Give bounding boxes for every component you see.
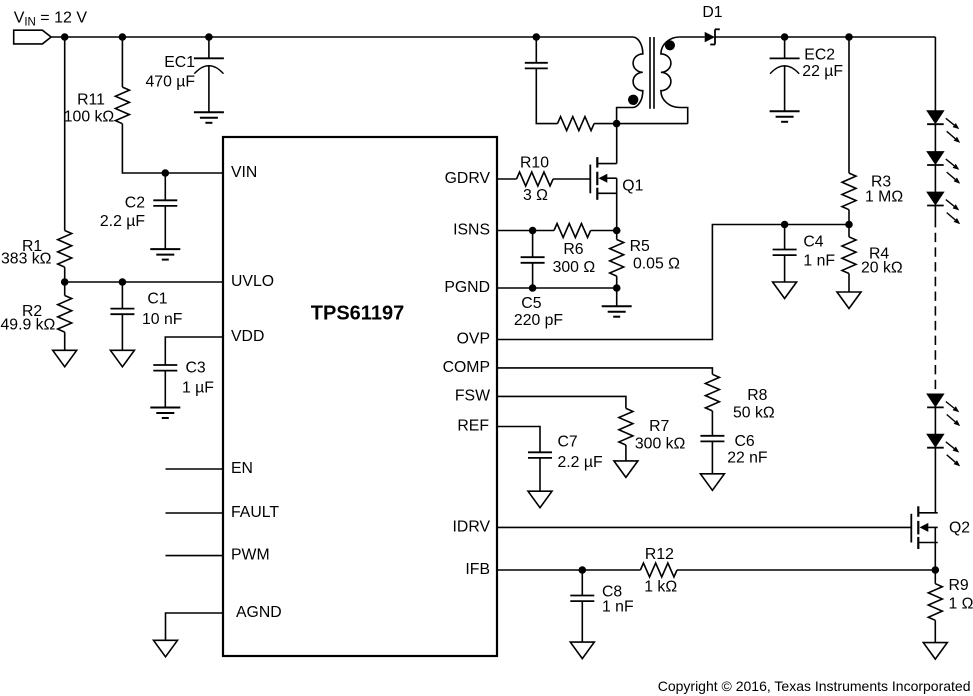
svg-text:3 Ω: 3 Ω bbox=[523, 187, 548, 204]
wire C2 top bbox=[164, 173, 166, 200]
svg-text:C4: C4 bbox=[803, 234, 823, 251]
capacitor snubber bbox=[525, 63, 548, 69]
svg-text:R8: R8 bbox=[747, 387, 767, 404]
transformer T1 core bbox=[650, 37, 654, 109]
wire AGND bbox=[166, 613, 224, 640]
node UVLO / C1 bbox=[119, 278, 127, 286]
svg-text:EC2: EC2 bbox=[804, 47, 835, 64]
node output rail / EC2 bbox=[781, 33, 789, 41]
wire R3 bottom bbox=[848, 210, 850, 225]
capacitor C6 22 nF bbox=[700, 433, 768, 467]
svg-text:R10: R10 bbox=[520, 155, 549, 172]
node input rail / R11 bbox=[119, 33, 127, 41]
wire R12 to Q2 source bbox=[677, 569, 935, 571]
svg-text:1 MΩ: 1 MΩ bbox=[865, 189, 903, 206]
svg-text:220 pF: 220 pF bbox=[514, 312, 564, 329]
pin PGND bbox=[444, 279, 490, 296]
LED D2 bbox=[927, 111, 960, 143]
wire R5 top bbox=[616, 231, 618, 240]
svg-text:EN: EN bbox=[231, 460, 253, 477]
wire LED string continuation (dashed) bbox=[934, 205, 936, 389]
ground EC2 bbox=[770, 111, 800, 122]
svg-text:FSW: FSW bbox=[455, 387, 490, 404]
wire snubber resistor to switch node bbox=[594, 123, 617, 125]
svg-text:470 µF: 470 µF bbox=[146, 73, 196, 90]
svg-text:R9: R9 bbox=[949, 577, 969, 594]
svg-text:C3: C3 bbox=[186, 359, 206, 376]
wire PGND to ground bbox=[616, 288, 618, 306]
svg-text:AGND: AGND bbox=[236, 604, 282, 621]
svg-text:383 kΩ: 383 kΩ bbox=[1, 251, 52, 268]
svg-text:Copyright © 2016, Texas Instru: Copyright © 2016, Texas Instruments Inco… bbox=[658, 678, 971, 694]
wire C5 bottom bbox=[532, 263, 534, 288]
svg-text:R12: R12 bbox=[645, 546, 674, 563]
wire snubber cap bottom bbox=[536, 68, 557, 124]
node VIN / C2 bbox=[162, 169, 170, 177]
node input rail / EC1 bbox=[205, 33, 213, 41]
svg-text:10 nF: 10 nF bbox=[142, 311, 183, 328]
svg-text:EC1: EC1 bbox=[164, 54, 195, 71]
label copyright bbox=[658, 678, 971, 694]
svg-text:100 kΩ: 100 kΩ bbox=[64, 108, 115, 125]
capacitor EC1 470 uF bbox=[146, 54, 224, 91]
pin IDRV bbox=[453, 518, 491, 535]
svg-text:C2: C2 bbox=[125, 194, 145, 211]
wire PGND bbox=[497, 287, 617, 289]
wire Q2 source bbox=[934, 527, 936, 570]
pin PWM bbox=[231, 547, 270, 564]
ground C7 bbox=[528, 491, 552, 508]
svg-text:20 kΩ: 20 kΩ bbox=[861, 260, 903, 277]
wire C2 bottom bbox=[164, 206, 166, 249]
wire C8 top bbox=[581, 570, 583, 596]
svg-text:UVLO: UVLO bbox=[231, 273, 274, 290]
resistor R12 1 kOhm bbox=[640, 546, 677, 595]
LED D4 bbox=[927, 192, 960, 224]
wire C1 bottom bbox=[121, 314, 123, 350]
svg-text:R7: R7 bbox=[649, 418, 669, 435]
polarity dot T1 primary bbox=[628, 95, 638, 105]
ground PGND bbox=[602, 306, 632, 317]
wire LED D6 to Q2 drain bbox=[934, 448, 936, 513]
node OVP / C4 bbox=[781, 221, 789, 229]
node output rail / R3 bbox=[845, 33, 853, 41]
ground EC1 bbox=[194, 112, 224, 123]
ground C8 bbox=[570, 642, 594, 659]
svg-text:VDD: VDD bbox=[231, 328, 264, 345]
resistor R9 1 Ohm bbox=[928, 577, 973, 620]
wire R4 bottom bbox=[848, 274, 850, 293]
svg-text:1 nF: 1 nF bbox=[803, 253, 835, 270]
resistor R1 383 kOhm bbox=[1, 231, 72, 268]
wire C5 top bbox=[532, 231, 534, 258]
node R3/R4/OVP bbox=[845, 221, 853, 229]
wire IFB bbox=[497, 569, 640, 571]
wire R11 top bbox=[121, 37, 123, 87]
svg-text:49.9 kΩ: 49.9 kΩ bbox=[1, 317, 56, 334]
pin OVP bbox=[457, 331, 490, 348]
resistor R6 300 Ohm bbox=[553, 224, 596, 276]
svg-text:IDRV: IDRV bbox=[453, 518, 491, 535]
pin VIN bbox=[231, 164, 257, 181]
wire C1 top bbox=[121, 282, 123, 309]
wire R2 top bbox=[64, 282, 66, 296]
svg-text:VIN: VIN bbox=[231, 164, 257, 181]
node ISNS / C5 bbox=[529, 227, 537, 235]
wire R2 bottom bbox=[64, 332, 66, 350]
wire R9 bottom bbox=[934, 620, 936, 642]
wire LED D2 to D3 bbox=[934, 124, 936, 152]
wire OVP bbox=[497, 225, 849, 340]
capacitor C2 2.2 uF bbox=[100, 194, 177, 229]
wire IDRV bbox=[497, 526, 911, 528]
wire C3 bottom bbox=[164, 371, 166, 408]
svg-text:PGND: PGND bbox=[444, 279, 490, 296]
svg-text:50 kΩ: 50 kΩ bbox=[733, 405, 775, 422]
svg-text:C5: C5 bbox=[521, 295, 541, 312]
wire R1 top bbox=[64, 37, 66, 231]
wire VDD pin bbox=[165, 337, 223, 365]
svg-text:D1: D1 bbox=[702, 4, 722, 21]
node R1/R2/UVLO bbox=[61, 278, 69, 286]
svg-text:C6: C6 bbox=[735, 433, 755, 450]
resistor R7 300 kOhm bbox=[619, 408, 686, 452]
transistor Q2 bbox=[911, 506, 970, 549]
svg-text:R6: R6 bbox=[563, 241, 583, 258]
wire FAULT stub bbox=[166, 512, 224, 514]
pin FAULT bbox=[231, 504, 279, 521]
wire R9 top bbox=[934, 570, 936, 584]
svg-text:2.2 µF: 2.2 µF bbox=[100, 213, 145, 230]
ground R4 bbox=[837, 292, 861, 309]
capacitor EC2 22 uF bbox=[770, 47, 844, 81]
wire REF bbox=[497, 427, 540, 453]
svg-text:2.2 µF: 2.2 µF bbox=[558, 454, 603, 471]
LED D3 bbox=[927, 152, 960, 184]
wire R3 top bbox=[848, 37, 850, 173]
pin IFB bbox=[465, 561, 490, 578]
pin EN bbox=[231, 460, 253, 477]
pin VDD bbox=[231, 328, 264, 345]
svg-text:Q2: Q2 bbox=[949, 519, 970, 536]
capacitor C8 1 nF bbox=[570, 584, 634, 616]
node IFB / C8 bbox=[579, 566, 587, 574]
svg-text:Q1: Q1 bbox=[622, 178, 643, 195]
capacitor C5 220 pF bbox=[514, 257, 564, 329]
wire UVLO bbox=[65, 281, 223, 283]
label VIN = 12 V bbox=[14, 10, 88, 29]
svg-text:ISNS: ISNS bbox=[453, 222, 490, 239]
resistor R3 1 MOhm bbox=[842, 173, 903, 210]
node R5 / PGND bbox=[613, 284, 621, 292]
capacitor C1 10 nF bbox=[110, 290, 182, 328]
svg-text:1 µF: 1 µF bbox=[182, 380, 214, 397]
wire LED D3 to D4 bbox=[934, 165, 936, 192]
wire C6 bottom bbox=[711, 441, 713, 474]
wire COMP bbox=[497, 368, 712, 374]
svg-text:300 Ω: 300 Ω bbox=[553, 259, 596, 276]
wire R5 bottom bbox=[616, 276, 618, 288]
svg-text:1 kΩ: 1 kΩ bbox=[644, 578, 677, 595]
pin UVLO bbox=[231, 273, 274, 290]
wire R6 to R5 bbox=[591, 230, 617, 232]
resistor R2 49.9 kOhm bbox=[1, 296, 72, 334]
wire R1 to UVLO bbox=[64, 267, 66, 282]
node input rail / snubber bbox=[533, 33, 541, 41]
wire EC2 top bbox=[784, 37, 786, 58]
wire R10 to Q1 gate bbox=[553, 178, 590, 180]
wire R4 top bbox=[848, 225, 850, 237]
inductor T1 primary winding bbox=[617, 37, 643, 124]
wire C7 bottom bbox=[539, 458, 541, 491]
ground R2 bbox=[53, 350, 77, 367]
ground R7 bbox=[614, 461, 638, 478]
wire C8 bottom bbox=[581, 601, 583, 642]
wire C4 top bbox=[784, 225, 786, 250]
ground C2 bbox=[150, 249, 180, 260]
svg-text:0.05 Ω: 0.05 Ω bbox=[633, 255, 680, 272]
wire input rail bbox=[51, 36, 632, 38]
LED D5 bbox=[927, 394, 960, 426]
inductor T1 secondary winding bbox=[661, 37, 688, 124]
LED D6 bbox=[927, 434, 960, 466]
wire output rail to LED string bbox=[934, 37, 936, 111]
pin REF bbox=[457, 417, 489, 434]
svg-text:300 kΩ: 300 kΩ bbox=[635, 435, 686, 452]
pin ISNS bbox=[453, 222, 490, 239]
wire transformer bottom bus bbox=[617, 123, 688, 125]
wire snubber cap top bbox=[535, 37, 537, 63]
svg-text:R11: R11 bbox=[77, 92, 105, 109]
wire LED D5 to D6 bbox=[934, 407, 936, 434]
wire R8 to C6 bbox=[711, 411, 713, 436]
svg-text:C1: C1 bbox=[147, 290, 167, 307]
svg-text:COMP: COMP bbox=[443, 359, 490, 376]
svg-text:REF: REF bbox=[457, 417, 489, 434]
ground C4 bbox=[773, 282, 797, 299]
wire C4 bottom bbox=[784, 255, 786, 282]
wire EC2 bottom bbox=[784, 65, 786, 111]
input terminal VIN = 12 V bbox=[14, 30, 51, 44]
ground C1 bbox=[110, 350, 134, 367]
op-amp U1 TPS61197 IC box bbox=[223, 137, 497, 656]
capacitor C4 1 nF bbox=[773, 234, 836, 270]
resistor R5 0.05 Ohm bbox=[610, 238, 680, 276]
svg-text:OVP: OVP bbox=[457, 331, 490, 348]
resistor R10 3 Ohm bbox=[517, 155, 554, 205]
resistor snubber bbox=[558, 117, 595, 131]
wire EC1 top bbox=[208, 37, 210, 58]
transistor Q1 bbox=[590, 157, 643, 200]
capacitor C3 1 uF bbox=[153, 359, 214, 396]
polarity dot T1 secondary bbox=[665, 40, 675, 50]
wire output rail bbox=[715, 36, 935, 38]
resistor R8 50 kOhm bbox=[705, 374, 774, 421]
svg-text:22 µF: 22 µF bbox=[802, 63, 843, 80]
svg-text:1 Ω: 1 Ω bbox=[949, 596, 973, 613]
node switch node bbox=[613, 120, 621, 128]
svg-text:PWM: PWM bbox=[231, 547, 270, 564]
wire secondary to D1 bbox=[680, 36, 705, 38]
capacitor C7 2.2 uF bbox=[528, 434, 603, 472]
node Q1 source / R5 bbox=[613, 227, 621, 235]
diode D1 bbox=[702, 4, 722, 45]
svg-text:TPS61197: TPS61197 bbox=[311, 303, 404, 325]
wire PWM stub bbox=[166, 555, 224, 557]
svg-text:FAULT: FAULT bbox=[231, 504, 279, 521]
resistor R11 100 kOhm bbox=[64, 87, 130, 125]
pin GDRV bbox=[445, 170, 491, 187]
svg-text:1 nF: 1 nF bbox=[602, 599, 634, 616]
wire FSW bbox=[497, 396, 626, 408]
svg-text:R5: R5 bbox=[630, 238, 650, 255]
pin AGND bbox=[236, 604, 282, 621]
wire R7 bottom bbox=[625, 445, 627, 461]
node input rail / R1 bbox=[61, 33, 69, 41]
ground AGND bbox=[154, 640, 178, 657]
svg-text:IFB: IFB bbox=[465, 561, 490, 578]
wire R11 to VIN pin bbox=[122, 124, 223, 173]
ground C3 bbox=[150, 408, 180, 419]
pin FSW bbox=[455, 387, 490, 404]
ground C6 bbox=[700, 474, 724, 491]
wire Q1 drain bbox=[616, 124, 618, 164]
wire ISNS bbox=[497, 230, 554, 232]
svg-text:C7: C7 bbox=[558, 434, 578, 451]
wire Q1 source bbox=[616, 178, 618, 230]
svg-text:GDRV: GDRV bbox=[445, 170, 491, 187]
wire GDRV to R10 bbox=[497, 178, 517, 180]
wire EN stub bbox=[166, 468, 224, 470]
node Q2 source / IFB / R9 bbox=[932, 566, 940, 574]
wire EC1 bottom bbox=[208, 65, 210, 112]
ground R9 bbox=[923, 643, 947, 660]
resistor R4 20 kOhm bbox=[842, 237, 903, 277]
node C5 / PGND bbox=[529, 284, 537, 292]
svg-text:22 nF: 22 nF bbox=[727, 450, 768, 467]
pin COMP bbox=[443, 359, 490, 376]
